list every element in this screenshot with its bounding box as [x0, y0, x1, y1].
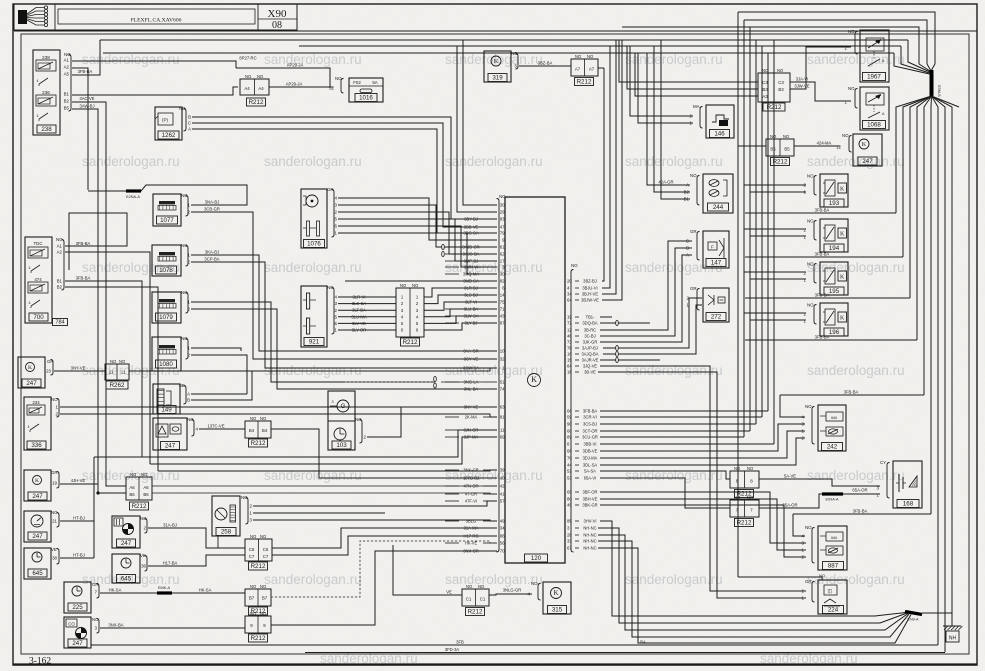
wire H17-RG C7 to ECU 88	[272, 536, 497, 555]
wire bus right top 2	[744, 20, 927, 64]
svg-text:sanderologan.ru: sanderologan.ru	[264, 52, 362, 67]
relay unit 238	[33, 50, 60, 135]
mid bundle vertical 756	[755, 40, 757, 424]
svg-text:NH-NC: NH-NC	[583, 532, 596, 537]
svg-text:82: 82	[500, 279, 505, 284]
svg-text:K: K	[840, 275, 845, 281]
svg-text:K: K	[840, 232, 845, 238]
svg-text:28: 28	[567, 533, 572, 538]
svg-text:3DB-VE: 3DB-VE	[583, 448, 598, 453]
relay unit 196	[820, 303, 848, 336]
svg-text:3NA-BJ: 3NA-BJ	[205, 200, 219, 205]
svg-text:NO: NO	[257, 74, 264, 79]
svg-text:90: 90	[567, 422, 572, 427]
connector R212 B7	[245, 589, 271, 606]
svg-text:258: 258	[221, 529, 232, 536]
svg-text:C: C	[686, 239, 689, 244]
svg-text:68: 68	[567, 449, 572, 454]
svg-text:247: 247	[862, 158, 873, 165]
svg-text:3AJP-BJ: 3AJP-BJ	[582, 345, 598, 350]
wire bus top 3	[103, 52, 894, 54]
svg-text:247: 247	[121, 540, 132, 547]
wire ECU 28 NH	[598, 535, 908, 630]
unit 224 TDC sensor	[818, 580, 847, 614]
wires into R212 C3 left	[619, 40, 758, 82]
svg-text:3DL-SA: 3DL-SA	[583, 462, 598, 467]
svg-text:247: 247	[32, 533, 43, 540]
svg-text:52: 52	[567, 469, 572, 474]
svg-text:B6: B6	[129, 492, 135, 497]
wire ECU 65 to 887.3	[600, 492, 806, 543]
svg-text:3AC-VE: 3AC-VE	[79, 96, 94, 101]
svg-text:NO: NO	[770, 134, 777, 139]
svg-text:39: 39	[500, 468, 505, 473]
unit 645 pin36	[112, 554, 140, 583]
svg-text:4: 4	[28, 425, 30, 429]
svg-text:16: 16	[567, 352, 572, 357]
svg-text:sanderologan.ru: sanderologan.ru	[625, 154, 723, 169]
svg-text:47F-VI: 47F-VI	[465, 498, 477, 503]
svg-text:A6: A6	[129, 485, 135, 490]
svg-text:NO: NO	[250, 611, 257, 616]
svg-text:HT-BJ: HT-BJ	[73, 516, 85, 521]
title block X90 08	[14, 4, 297, 30]
svg-text:E2NA-A: E2NA-A	[126, 195, 140, 199]
svg-text:K: K	[862, 141, 867, 148]
unit 168 ignition coil	[893, 461, 922, 508]
svg-text:47: 47	[500, 225, 505, 230]
svg-text:87: 87	[500, 321, 505, 326]
svg-text:921: 921	[309, 339, 320, 346]
svg-text:4: 4	[37, 114, 39, 118]
svg-text:sanderologan.ru: sanderologan.ru	[264, 260, 362, 275]
svg-text:NO: NO	[412, 283, 419, 288]
unit 315	[543, 582, 571, 614]
wire 234.1 to ECU 63	[60, 406, 497, 408]
svg-text:72: 72	[567, 321, 572, 326]
relay unit 1068	[860, 87, 889, 130]
svg-text:B2: B2	[64, 99, 70, 104]
svg-text:1080: 1080	[159, 361, 173, 368]
wire 1262.C	[192, 123, 497, 227]
wire ECU 44 to 242.2	[600, 438, 805, 465]
connector R262	[105, 364, 129, 380]
svg-text:3B-RC: 3B-RC	[584, 327, 596, 332]
wire 242.4 from 3FB-BA	[780, 395, 805, 417]
wire ECU 45 to 887.2	[600, 505, 806, 557]
wire row 74 3NL-BA	[345, 388, 445, 390]
harness connector icon	[18, 10, 27, 24]
svg-text:NO: NO	[181, 336, 188, 341]
svg-text:NO: NO	[181, 243, 188, 248]
wire 1262.B	[192, 117, 497, 219]
svg-text:R212: R212	[767, 104, 782, 111]
wire 195.1	[750, 278, 806, 280]
svg-text:NO: NO	[130, 472, 137, 477]
svg-text:168: 168	[903, 501, 914, 508]
svg-text:3CY-VE: 3CY-VE	[464, 356, 479, 361]
svg-text:NO: NO	[734, 466, 741, 471]
wire 149.A	[191, 393, 247, 395]
svg-text:3BB-VE: 3BB-VE	[464, 224, 479, 229]
svg-text:GR: GR	[92, 582, 99, 587]
svg-text:1016: 1016	[359, 95, 373, 102]
svg-text:sanderologan.ru: sanderologan.ru	[625, 572, 723, 587]
wire to ground NH	[922, 613, 952, 626]
wires ECU right sensor rows to mid bundle	[600, 410, 768, 412]
outer border bottom thick	[13, 663, 977, 665]
svg-text:193: 193	[829, 200, 840, 207]
svg-text:149: 149	[161, 407, 172, 414]
wire 31A-MA C6 to ECU 34	[272, 528, 497, 548]
ground symbol NH	[943, 625, 961, 627]
svg-text:3BJY-VE: 3BJY-VE	[582, 291, 599, 296]
svg-text:A1: A1	[57, 244, 63, 249]
svg-text:236: 236	[42, 90, 50, 95]
svg-text:64: 64	[567, 298, 572, 303]
svg-text:BA: BA	[640, 640, 646, 645]
svg-text:NO: NO	[327, 285, 334, 290]
svg-text:NO: NO	[690, 173, 697, 178]
svg-text:3AA-GR: 3AA-GR	[463, 348, 478, 353]
svg-text:137C-VE: 137C-VE	[208, 424, 225, 429]
svg-text:34: 34	[500, 526, 505, 531]
wire 3NX-GR to ECU 70	[271, 551, 497, 625]
svg-text:B: B	[686, 246, 689, 251]
svg-text:3FB-BA: 3FB-BA	[815, 335, 830, 340]
wire bus top 2	[299, 45, 901, 47]
svg-text:sanderologan.ru: sanderologan.ru	[807, 468, 905, 483]
svg-text:NH-NC: NH-NC	[583, 545, 596, 550]
unit 272 sensor	[703, 288, 729, 322]
svg-text:TDC: TDC	[33, 241, 42, 246]
wire bus right top 3	[622, 27, 919, 64]
svg-text:3LT-VI: 3LT-VI	[465, 299, 477, 304]
svg-text:315: 315	[552, 607, 563, 614]
svg-text:225: 225	[72, 604, 83, 611]
svg-text:HK-SA: HK-SA	[199, 588, 212, 593]
svg-text:NO: NO	[179, 106, 186, 111]
svg-text:247: 247	[72, 640, 83, 647]
svg-text:VE: VE	[140, 553, 146, 558]
wire 1262.A	[192, 129, 497, 233]
svg-text:63: 63	[500, 405, 505, 410]
mid bundle vertical 774	[773, 40, 775, 444]
mid bundle vertical 750	[749, 27, 751, 431]
svg-text:sanderologan.ru: sanderologan.ru	[625, 363, 723, 378]
svg-text:NO: NO	[181, 193, 188, 198]
svg-text:NO: NO	[807, 174, 814, 179]
svg-text:103: 103	[336, 442, 347, 449]
svg-text:60: 60	[567, 429, 572, 434]
svg-text:1068: 1068	[867, 122, 881, 129]
wire 146.2	[630, 46, 693, 116]
svg-text:17: 17	[500, 259, 505, 264]
mid bundle vertical 768	[767, 53, 769, 411]
svg-text:3FB-BA: 3FB-BA	[815, 208, 830, 213]
svg-text:NO: NO	[762, 68, 769, 73]
wire ECU 46 to unit 147 B	[600, 248, 692, 336]
svg-text:247: 247	[26, 380, 37, 387]
svg-text:A4: A4	[244, 86, 250, 91]
svg-text:78: 78	[567, 346, 572, 351]
svg-text:51: 51	[500, 380, 505, 385]
svg-text:5A-VE: 5A-VE	[784, 474, 796, 479]
svg-text:sanderologan.ru: sanderologan.ru	[82, 154, 180, 169]
svg-text:3CS-BJ: 3CS-BJ	[583, 421, 597, 426]
dashed wire 3NG-LA row	[345, 381, 435, 383]
svg-text:NO: NO	[848, 86, 855, 91]
wire from 238.B1	[72, 87, 238, 95]
svg-text:49: 49	[500, 519, 505, 524]
svg-text:NO: NO	[511, 51, 518, 56]
svg-text:CY: CY	[880, 460, 886, 465]
svg-text:11: 11	[500, 428, 505, 433]
svg-text:NO: NO	[531, 581, 538, 586]
svg-text:GR: GR	[47, 359, 54, 364]
svg-text:242: 242	[827, 444, 838, 451]
svg-text:G: G	[341, 404, 346, 410]
svg-text:A1: A1	[64, 58, 70, 63]
svg-text:3LS-BJ: 3LS-BJ	[464, 292, 477, 297]
svg-text:3NK-GR: 3NK-GR	[463, 467, 479, 472]
svg-text:3BF-OR: 3BF-OR	[582, 489, 597, 494]
svg-text:319: 319	[492, 75, 503, 82]
svg-text:A2: A2	[57, 250, 63, 255]
svg-text:GR: GR	[327, 187, 334, 192]
svg-text:56: 56	[500, 541, 505, 546]
svg-text:31A-MA: 31A-MA	[464, 525, 479, 530]
svg-text:NO: NO	[355, 417, 362, 422]
ECU right pin bracket	[571, 270, 574, 553]
svg-text:GR: GR	[805, 579, 812, 584]
svg-text:5A-SA: 5A-SA	[584, 468, 596, 473]
wire 887.4 from 3FB-BA	[793, 514, 805, 536]
svg-text:4JH-VE: 4JH-VE	[71, 478, 86, 483]
svg-text:R212: R212	[251, 563, 266, 570]
svg-text:14: 14	[500, 293, 505, 298]
svg-text:12: 12	[836, 145, 841, 150]
svg-text:30: 30	[500, 272, 505, 277]
relay unit 193	[820, 174, 848, 207]
svg-text:R212: R212	[403, 339, 418, 346]
svg-text:NO: NO	[187, 417, 194, 422]
svg-text:4: 4	[29, 301, 31, 305]
svg-text:196: 196	[829, 329, 840, 336]
svg-text:R212: R212	[249, 99, 264, 106]
svg-text:43: 43	[500, 314, 505, 319]
svg-text:38: 38	[52, 556, 57, 561]
svg-text:61: 61	[500, 245, 505, 250]
svg-text:C3: C3	[762, 80, 768, 85]
svg-text:sanderologan.ru: sanderologan.ru	[445, 154, 543, 169]
svg-text:NO: NO	[848, 29, 855, 34]
wire ECU 16 to unit 272 pin1	[603, 305, 702, 354]
svg-text:HK-VE: HK-VE	[465, 540, 478, 545]
svg-text:MA: MA	[693, 104, 700, 109]
svg-text:NO: NO	[777, 68, 784, 73]
svg-text:42: 42	[500, 484, 505, 489]
svg-text:3FB-BA: 3FB-BA	[76, 276, 91, 281]
svg-text:84: 84	[567, 364, 572, 369]
svg-text:59: 59	[567, 415, 572, 420]
svg-text:69: 69	[500, 435, 505, 440]
svg-text:VE: VE	[446, 590, 452, 595]
wire stubs C6 C7 left	[218, 547, 245, 549]
svg-text:E9M-B: E9M-B	[937, 85, 941, 97]
svg-text:B1: B1	[57, 279, 63, 284]
svg-text:47-GR: 47-GR	[465, 491, 477, 496]
svg-text:5A: 5A	[372, 80, 377, 85]
unit 225 pin7	[64, 582, 91, 613]
svg-text:B4: B4	[249, 428, 255, 433]
svg-text:47N-OR: 47N-OR	[463, 483, 478, 488]
unit 247 CO sensor	[64, 617, 91, 648]
wire 193.2	[744, 184, 806, 186]
wire stubs ECU right middle	[600, 316, 612, 318]
svg-text:80: 80	[567, 497, 572, 502]
svg-text:3FB: 3FB	[456, 640, 464, 645]
svg-text:H17-RG: H17-RG	[463, 533, 478, 538]
wire ECU 80 to 887.1	[600, 499, 806, 550]
svg-text:89: 89	[567, 435, 572, 440]
svg-text:NO: NO	[478, 584, 485, 589]
svg-text:74: 74	[500, 387, 505, 392]
svg-text:NO: NO	[56, 237, 63, 242]
unit 887 water temp sensor	[818, 526, 847, 570]
svg-text:3CB-GR: 3CB-GR	[204, 207, 220, 212]
svg-text:C1: C1	[480, 597, 486, 602]
wire ECU 18 to unit 224 pin1	[598, 372, 806, 598]
wire 193.1	[750, 191, 806, 193]
svg-text:3CU-GR: 3CU-GR	[582, 434, 598, 439]
svg-text:65A-OR: 65A-OR	[782, 503, 797, 508]
svg-text:30: 30	[500, 203, 505, 208]
wire 194.2	[744, 228, 806, 230]
svg-text:HT-BJ: HT-BJ	[73, 553, 85, 558]
wire ECU 15	[600, 359, 660, 361]
svg-text:75: 75	[500, 300, 505, 305]
svg-text:44: 44	[567, 463, 572, 468]
svg-text:3AJC-BA: 3AJC-BA	[463, 251, 480, 256]
svg-text:1079: 1079	[159, 314, 173, 321]
svg-text:3AJR-VE: 3AJR-VE	[582, 357, 599, 362]
svg-text:A: A	[686, 253, 689, 258]
wire 258.2 to ECU 57	[253, 501, 497, 506]
svg-text:B5: B5	[784, 147, 790, 152]
svg-text:HK-SA: HK-SA	[109, 588, 122, 593]
svg-text:3FB-BA: 3FB-BA	[815, 293, 830, 298]
svg-text:S2: S2	[329, 86, 335, 91]
svg-text:B1: B1	[64, 92, 70, 97]
svg-text:120: 120	[531, 555, 542, 562]
svg-text:474: 474	[34, 277, 42, 282]
wire row to ECU 11 3JN-GR	[94, 430, 497, 457]
junction dot	[96, 491, 99, 494]
svg-text:NO: NO	[587, 54, 594, 59]
svg-text:3CP-BA: 3CP-BA	[204, 257, 219, 262]
svg-text:66: 66	[567, 409, 572, 414]
unit 147 fuel vapour	[703, 231, 729, 268]
unit 645 pin38	[24, 548, 51, 579]
unit 319	[484, 51, 511, 82]
svg-text:3BK-GR: 3BK-GR	[582, 502, 597, 507]
svg-text:NO: NO	[400, 283, 407, 288]
unit 1262 fuel pump	[155, 107, 182, 140]
connector R212 C3 B3 A3	[758, 73, 790, 102]
svg-text:137C-BJ: 137C-BJ	[463, 475, 479, 480]
svg-text:C6: C6	[249, 547, 255, 552]
svg-text:sanderologan.ru: sanderologan.ru	[264, 572, 362, 587]
svg-text:F02: F02	[353, 80, 361, 85]
unit 1076 ignition module	[301, 189, 327, 248]
svg-text:3FB-BA: 3FB-BA	[78, 69, 93, 74]
svg-text:R212: R212	[251, 635, 266, 642]
svg-text:195: 195	[829, 288, 840, 295]
svg-text:3FB-BA: 3FB-BA	[76, 241, 91, 246]
svg-text:X90: X90	[268, 8, 287, 20]
connector R212 C1	[462, 589, 489, 606]
svg-text:sanderologan.ru: sanderologan.ru	[82, 52, 180, 67]
svg-text:NO: NO	[734, 495, 741, 500]
connector R212 C6 C7	[245, 539, 272, 561]
connector R212 A4	[240, 79, 269, 95]
injector 1080	[152, 337, 181, 371]
wire 47N-OR A6 to ECU 42	[152, 485, 497, 487]
svg-text:B3: B3	[762, 87, 768, 92]
svg-text:88: 88	[500, 534, 505, 539]
relay unit 234 336	[24, 397, 51, 450]
svg-text:36: 36	[141, 564, 146, 569]
svg-text:◫: ◫	[828, 589, 833, 595]
svg-text:R212: R212	[577, 79, 592, 86]
svg-text:NO: NO	[181, 290, 188, 295]
unit 258 diag connector	[212, 496, 240, 536]
svg-text:NO: NO	[260, 534, 267, 539]
connector R212 9	[245, 616, 271, 633]
svg-text:53: 53	[567, 476, 572, 481]
svg-text:33: 33	[567, 539, 572, 544]
svg-text:3LU-BA: 3LU-BA	[464, 306, 479, 311]
unit 247 pin21 speedometer	[24, 511, 51, 542]
wire 8P27-RC from 238.A1	[72, 61, 236, 68]
svg-text:K: K	[531, 375, 537, 384]
connector R212 8	[730, 471, 759, 488]
svg-text:C7: C7	[249, 554, 255, 559]
svg-text:B7: B7	[262, 596, 268, 601]
svg-text:C3: C3	[778, 80, 784, 85]
svg-text:NO: NO	[805, 525, 812, 530]
unit 247 pin12	[853, 134, 882, 166]
ground splice fan	[905, 612, 922, 615]
relay unit 700 784	[25, 237, 52, 323]
ECU unit 120	[505, 197, 565, 563]
svg-text:K: K	[35, 478, 39, 484]
svg-text:EN9-A: EN9-A	[907, 618, 919, 622]
svg-text:NO: NO	[747, 466, 754, 471]
svg-text:NO: NO	[119, 359, 126, 364]
wire R262 to ECU pin 1	[129, 368, 497, 371]
svg-text:A3: A3	[762, 94, 768, 99]
svg-text:3LY-BJ: 3LY-BJ	[465, 320, 478, 325]
svg-text:3JK-GR: 3JK-GR	[583, 339, 598, 344]
svg-text:K: K	[840, 187, 845, 193]
svg-text:3DJ-MA: 3DJ-MA	[583, 455, 598, 460]
svg-text:224: 224	[828, 607, 839, 614]
svg-text:65A-VI: 65A-VI	[584, 475, 597, 480]
svg-text:C6: C6	[263, 547, 269, 552]
wire to ECU pin 29 from bus	[457, 46, 497, 212]
